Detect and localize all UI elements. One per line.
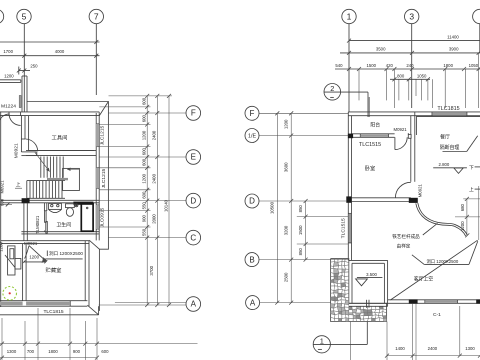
axis line 5 bbox=[23, 24, 25, 112]
svg-text:M0921: M0921 bbox=[0, 180, 4, 194]
svg-text:1: 1 bbox=[347, 11, 352, 21]
svg-text:A: A bbox=[250, 298, 256, 307]
svg-text:JLC1215: JLC1215 bbox=[101, 168, 107, 188]
door M1224 leaf (outside) bbox=[19, 96, 21, 108]
stair flight edges bbox=[27, 180, 65, 182]
svg-text:卫生间: 卫生间 bbox=[56, 221, 71, 228]
door M1224 opening jambs bbox=[8, 112, 10, 116]
black band above shower bbox=[73, 202, 93, 205]
curved wall (double) bbox=[418, 203, 468, 236]
svg-text:M0921: M0921 bbox=[24, 241, 38, 246]
axis F leader bbox=[109, 112, 187, 114]
svg-text:2: 2 bbox=[330, 84, 334, 93]
top dim line outer bbox=[0, 41, 100, 43]
axis circle 5 bbox=[17, 9, 31, 23]
porch and hatch bbox=[331, 259, 387, 322]
svg-text:JLC0915: JLC0915 bbox=[99, 207, 105, 227]
dim ticks col1 bbox=[145, 94, 171, 307]
glass: TLC1515 balcony bbox=[361, 135, 388, 137]
dining inner line bbox=[416, 117, 480, 135]
eave outline left building bbox=[27, 102, 109, 311]
left plan: right-side axis leaders / dims bbox=[99, 96, 186, 305]
bathroom left wall + sliding door TLM0821 bbox=[43, 203, 45, 211]
tool room bottom wall bbox=[26, 150, 96, 152]
svg-text:2500: 2500 bbox=[283, 272, 288, 282]
svg-text:F: F bbox=[191, 109, 196, 118]
svg-text:TLC1815: TLC1815 bbox=[437, 106, 459, 112]
svg-text:2000: 2000 bbox=[152, 214, 157, 224]
svg-text:1500: 1500 bbox=[367, 63, 377, 68]
dim row 11400 bbox=[349, 40, 480, 42]
black piers bbox=[348, 134, 353, 139]
svg-text:600: 600 bbox=[142, 115, 147, 123]
eave bevel top-right bbox=[99, 102, 108, 116]
balcony door right jamb bbox=[408, 134, 411, 138]
svg-text:上: 上 bbox=[16, 181, 21, 188]
door M1224 swing arc bbox=[0, 114, 21, 126]
dim column lines bbox=[146, 96, 148, 305]
stairs upper flight treads bbox=[41, 157, 63, 178]
window JLC1215 stair jambs bbox=[96, 167, 99, 169]
svg-text:洞口 1200X2500: 洞口 1200X2500 bbox=[49, 250, 83, 257]
svg-text:3.500: 3.500 bbox=[366, 272, 377, 277]
svg-text:1050: 1050 bbox=[417, 73, 427, 78]
wall stub above building at axis 5 bbox=[21, 76, 23, 112]
stair up arrow (horizontal) bbox=[67, 168, 79, 170]
svg-text:3200: 3200 bbox=[283, 225, 288, 235]
top wall bbox=[348, 111, 480, 113]
svg-text:1200: 1200 bbox=[4, 74, 14, 79]
dim row 800/1050 bbox=[390, 78, 430, 80]
svg-text:4000: 4000 bbox=[55, 49, 65, 54]
svg-text:F: F bbox=[250, 109, 255, 118]
black pier left of bathroom wall bbox=[22, 198, 30, 203]
axis circles right column bbox=[186, 106, 201, 312]
door M0921 bedroom swing bbox=[395, 182, 410, 197]
svg-text:1200: 1200 bbox=[142, 130, 147, 140]
bedroom bottom wall bbox=[352, 197, 411, 199]
svg-text:洞口 1200X2500: 洞口 1200X2500 bbox=[427, 258, 459, 264]
door M0921 storage: leaf + swing bbox=[29, 246, 46, 262]
svg-text:10140: 10140 bbox=[163, 199, 168, 212]
svg-text:3600: 3600 bbox=[283, 162, 288, 172]
svg-text:420: 420 bbox=[386, 63, 394, 68]
svg-text:客厅上空: 客厅上空 bbox=[414, 275, 434, 282]
entry break ticks bbox=[366, 300, 368, 308]
right wall of balcony/bedroom bbox=[410, 116, 412, 135]
axis D leader bbox=[99, 200, 186, 202]
svg-text:3: 3 bbox=[409, 11, 414, 21]
svg-text:600: 600 bbox=[142, 97, 147, 105]
svg-text:540: 540 bbox=[335, 63, 343, 68]
dining leader bbox=[443, 151, 467, 153]
svg-text:M0921: M0921 bbox=[394, 127, 408, 132]
stairwell inner box bbox=[63, 168, 80, 190]
svg-text:1200: 1200 bbox=[0, 242, 4, 252]
storage room left wall bbox=[22, 244, 24, 301]
svg-text:2400: 2400 bbox=[428, 346, 438, 351]
svg-text:1800: 1800 bbox=[48, 349, 58, 354]
dim row small bbox=[335, 68, 480, 70]
svg-text:铁艺栏杆成品: 铁艺栏杆成品 bbox=[392, 233, 420, 240]
svg-text:850: 850 bbox=[298, 205, 303, 213]
svg-text:1300: 1300 bbox=[465, 346, 475, 351]
living room void diagonals bbox=[390, 240, 477, 300]
level 3.500 symbol bbox=[357, 277, 383, 279]
svg-text:TLM0821: TLM0821 bbox=[35, 215, 40, 234]
top dim labels bbox=[3, 49, 64, 78]
rain pipe / axis stub (thick gray) bbox=[367, 97, 370, 117]
railing leader bbox=[423, 223, 438, 235]
svg-text:2400: 2400 bbox=[152, 130, 157, 140]
svg-text:850: 850 bbox=[298, 248, 303, 256]
svg-text:贮藏室: 贮藏室 bbox=[46, 266, 62, 274]
svg-text:3500: 3500 bbox=[376, 47, 386, 52]
svg-text:上: 上 bbox=[469, 186, 474, 193]
svg-text:11400: 11400 bbox=[447, 34, 459, 39]
dim row 3500/3900 bbox=[340, 52, 480, 54]
dim ticks bbox=[22, 54, 26, 58]
axis circle 5 (cut) bbox=[473, 9, 480, 23]
glass: TLC1815 top bbox=[432, 113, 466, 116]
svg-text:由样定: 由样定 bbox=[397, 243, 411, 250]
cabinet fixtures left edge bbox=[8, 246, 15, 275]
svg-text:阳台: 阳台 bbox=[370, 121, 380, 128]
axis circle 2 with leader bbox=[324, 84, 368, 101]
corridor left wall bbox=[23, 203, 25, 241]
wall stub below door bbox=[21, 151, 36, 153]
left plan bottom dims bbox=[0, 308, 198, 360]
shower stall (bold) bbox=[81, 204, 93, 232]
svg-text:1050: 1050 bbox=[469, 63, 479, 68]
top wall bbox=[0, 111, 99, 113]
black piers bottom wall bbox=[409, 299, 418, 303]
svg-text:2.800: 2.800 bbox=[439, 162, 450, 167]
eave bottom line bbox=[0, 314, 99, 316]
svg-text:1200: 1200 bbox=[142, 173, 147, 183]
eave bevel bottom-right bbox=[87, 305, 98, 315]
svg-text:3900: 3900 bbox=[449, 47, 459, 52]
opening label underline + leader bbox=[45, 258, 82, 260]
svg-text:2400: 2400 bbox=[152, 173, 157, 183]
svg-text:1700: 1700 bbox=[3, 49, 13, 54]
tool room inner box bbox=[29, 116, 95, 151]
sink vanity bbox=[49, 203, 62, 209]
ticks for top dim rows bbox=[347, 39, 480, 82]
window JLC0915 jambs bbox=[96, 204, 99, 206]
window TLC1515 left jambs bbox=[348, 212, 351, 214]
storage room top wall bbox=[1, 240, 89, 242]
level 2.800 underline + symbol bbox=[433, 167, 467, 169]
right plan: left axis circles + dims bbox=[259, 113, 349, 302]
svg-text:E: E bbox=[191, 153, 196, 162]
eave bevel mid-right bbox=[89, 240, 99, 249]
bathroom top wall bbox=[1, 199, 100, 201]
down arrow line bbox=[475, 166, 480, 168]
svg-text:C: C bbox=[190, 233, 196, 242]
svg-text:600: 600 bbox=[0, 198, 4, 206]
svg-text:下: 下 bbox=[469, 165, 474, 171]
svg-text:1200: 1200 bbox=[29, 254, 39, 259]
svg-text:700: 700 bbox=[27, 349, 35, 354]
left wall bbox=[347, 112, 349, 261]
axis circle 7 bbox=[89, 9, 103, 23]
dim 1200 line at storage door bbox=[24, 261, 46, 263]
bathroom bottom wall bbox=[21, 231, 99, 233]
left plan text labels bbox=[0, 104, 107, 315]
svg-text:550: 550 bbox=[142, 228, 147, 236]
svg-text:M1224: M1224 bbox=[1, 104, 16, 110]
svg-text:B: B bbox=[249, 255, 254, 264]
window JLC0915 glass bbox=[96, 205, 99, 229]
right plan: right-side dims bbox=[455, 186, 480, 240]
svg-text:C-1: C-1 bbox=[433, 312, 441, 318]
window TLC1815 glass bbox=[1, 302, 71, 306]
svg-text:1300: 1300 bbox=[7, 349, 17, 354]
door M0921 tool room: swing bbox=[25, 139, 37, 151]
survey marker (green dashed circle, red dot) bbox=[3, 287, 17, 301]
svg-text:工具间: 工具间 bbox=[52, 134, 68, 142]
balcony bottom wall bbox=[352, 133, 395, 135]
svg-text:M0921: M0921 bbox=[417, 184, 422, 198]
floor drain bbox=[75, 204, 78, 207]
svg-text:7: 7 bbox=[94, 11, 99, 21]
axis circle 1 bottom with leader bbox=[313, 322, 367, 353]
axis lines bbox=[348, 24, 350, 112]
svg-text:1500: 1500 bbox=[298, 225, 303, 235]
svg-text:1: 1 bbox=[320, 337, 324, 346]
svg-text:D: D bbox=[249, 197, 255, 206]
window TLC1515 balcony jambs bbox=[359, 134, 361, 138]
svg-text:680: 680 bbox=[460, 204, 465, 212]
window TLC1815 jambs bbox=[431, 112, 433, 116]
svg-text:隔断自理: 隔断自理 bbox=[440, 144, 460, 151]
top dim line inner bbox=[0, 55, 100, 57]
svg-text:JLC1215: JLC1215 bbox=[99, 125, 105, 145]
window JLC1215 upper glass bbox=[96, 124, 99, 147]
svg-text:600: 600 bbox=[142, 191, 147, 199]
storage room right wall bbox=[84, 241, 86, 301]
svg-text:餐厅: 餐厅 bbox=[440, 133, 450, 140]
window JLC1215 stair glass bbox=[96, 168, 99, 189]
bottom wall of living room bbox=[388, 299, 480, 301]
axis line 7 bbox=[95, 24, 97, 95]
svg-text:900: 900 bbox=[73, 349, 81, 354]
stair mid rail bbox=[47, 178, 68, 180]
interior wall left of tool room bbox=[20, 116, 22, 152]
svg-text:1200: 1200 bbox=[460, 221, 465, 231]
svg-text:D: D bbox=[190, 196, 196, 205]
svg-text:600: 600 bbox=[142, 148, 147, 156]
svg-text:3700: 3700 bbox=[149, 265, 154, 275]
svg-text:1200: 1200 bbox=[283, 119, 288, 129]
svg-text:800: 800 bbox=[397, 73, 405, 78]
svg-text:600: 600 bbox=[142, 158, 147, 166]
door M0921 balcony leaf+swing bbox=[394, 137, 396, 149]
porch walls bbox=[349, 259, 388, 261]
right plan: bottom dims bbox=[351, 304, 480, 360]
250 dim line bbox=[19, 70, 31, 72]
svg-text:TLC1515: TLC1515 bbox=[359, 142, 381, 148]
axis circle 1 bbox=[342, 9, 356, 23]
right wall upper bbox=[95, 113, 97, 240]
up arrow line bbox=[475, 188, 480, 190]
svg-text:卧室: 卧室 bbox=[365, 164, 376, 172]
svg-text:550: 550 bbox=[142, 202, 147, 210]
svg-text:TLC1815: TLC1815 bbox=[43, 309, 63, 315]
svg-text:TLC1515: TLC1515 bbox=[340, 218, 346, 238]
glass: TLC1515 left wall bbox=[349, 214, 351, 243]
svg-text:600: 600 bbox=[101, 349, 109, 354]
toilet bbox=[66, 204, 75, 208]
porch texts bbox=[366, 233, 459, 318]
dining / level texts bbox=[340, 106, 474, 238]
extension lines down to wall bbox=[358, 69, 360, 100]
extension lines bbox=[109, 95, 173, 97]
bottom wall with window TLC1815 bbox=[0, 300, 87, 302]
rotated dim labels col1 bbox=[142, 97, 169, 275]
axis E leader bbox=[99, 156, 186, 158]
axis circle 3 bbox=[405, 9, 419, 23]
left outer wall (cut by image edge) bbox=[0, 112, 2, 307]
axis A leader bbox=[115, 302, 186, 304]
svg-text:M0921: M0921 bbox=[13, 143, 19, 158]
svg-text:5: 5 bbox=[22, 11, 27, 21]
svg-text:250: 250 bbox=[30, 63, 38, 68]
courtyard wall top-left bbox=[0, 79, 21, 81]
top dim labels bbox=[335, 34, 478, 78]
axis C leader bbox=[109, 237, 187, 239]
svg-text:1/E: 1/E bbox=[248, 134, 256, 140]
stairs lower flight treads bbox=[27, 181, 62, 199]
window JLC1215 upper jambs bbox=[96, 123, 99, 125]
axis circle (cut) left edge bbox=[0, 9, 4, 23]
svg-text:10500: 10500 bbox=[270, 201, 275, 214]
stair direction arrow (diagonal) bbox=[35, 152, 50, 171]
right plan building bbox=[348, 112, 480, 261]
svg-text:1400: 1400 bbox=[395, 346, 405, 351]
stone hatched terrace (L shape) bbox=[331, 259, 387, 322]
svg-text:A: A bbox=[191, 300, 197, 309]
glass: window C-1 bbox=[425, 300, 457, 302]
svg-text:1800: 1800 bbox=[443, 63, 453, 68]
svg-text:240: 240 bbox=[406, 63, 414, 68]
svg-text:900: 900 bbox=[142, 215, 147, 223]
